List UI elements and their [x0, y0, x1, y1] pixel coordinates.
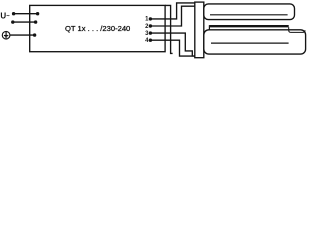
wire case/corner to lamp — [165, 5, 173, 53]
wire lamp 4 — [150, 40, 194, 56]
earth symbol PE — [2, 31, 10, 39]
wire earth — [10, 34, 35, 36]
tube lower end shoulder line — [289, 27, 305, 32]
ballast box QT 1x.../230-240 — [30, 5, 165, 51]
terminal dot L inner — [36, 12, 39, 15]
svg-text:~: ~ — [6, 14, 10, 20]
lamp leg separation hook — [208, 25, 210, 30]
tube lower inner line — [211, 42, 289, 44]
terminal dot 2 — [149, 24, 152, 27]
lamp tube lower leg — [204, 30, 306, 54]
wire lamp 3 — [150, 33, 194, 56]
terminal dot earth inner — [33, 33, 36, 36]
terminal dot 1 — [149, 17, 152, 20]
tube upper inner line — [210, 14, 288, 16]
wire mains N — [13, 21, 36, 23]
terminal dot N inner — [34, 20, 37, 23]
svg-text:QT 1x . . . /230-240: QT 1x . . . /230-240 — [65, 24, 130, 33]
wire lamp 2 — [150, 6, 194, 26]
terminal dot 3 — [149, 31, 152, 34]
terminal dot 4 — [149, 39, 152, 42]
label U~ (mains voltage) — [0, 11, 10, 20]
lamp tube upper leg — [204, 4, 295, 20]
terminal dot N outer — [11, 20, 14, 23]
terminal dot L outer — [12, 12, 15, 15]
wire lamp 1 — [150, 3, 194, 19]
wire mains L — [13, 13, 37, 15]
lamp base 2G11 — [195, 2, 204, 58]
lamp leg separation bar — [209, 25, 288, 27]
